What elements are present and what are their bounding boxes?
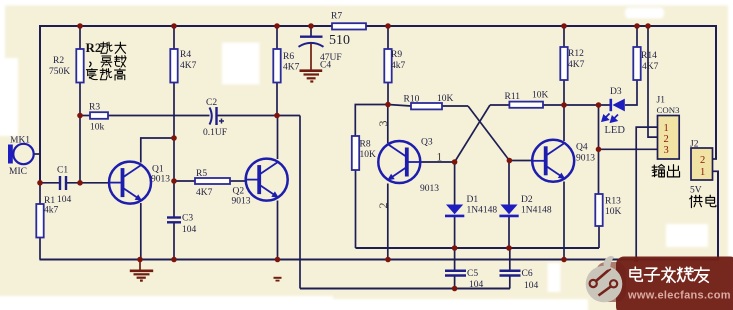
wire R13 bottom to node-A rail bbox=[598, 226, 600, 248]
svg-text:CON3: CON3 bbox=[657, 105, 681, 115]
text 供电 glyph 电 bbox=[706, 195, 716, 206]
wire Q3 collector vertical bbox=[387, 105, 389, 144]
wire Q1 emitter to ground bbox=[140, 203, 142, 260]
svg-text:R1: R1 bbox=[44, 196, 55, 206]
badge glyph 发 bbox=[662, 267, 675, 282]
node D3-R13 bbox=[596, 102, 602, 108]
wire VCC top rail left of R7 bbox=[40, 25, 332, 27]
node VCC-R14 bbox=[634, 23, 640, 29]
svg-text:4K7: 4K7 bbox=[642, 62, 659, 72]
wire R10 right bbox=[442, 105, 468, 107]
svg-text:R5: R5 bbox=[196, 169, 207, 179]
capacitor C3 bbox=[167, 218, 181, 223]
wire ground rail (bottom main) bbox=[40, 259, 720, 261]
svg-text:J1: J1 bbox=[657, 96, 666, 106]
node VCC-R12 bbox=[561, 23, 567, 29]
white patch bottom left strip bbox=[0, 296, 333, 310]
wire R6 top bbox=[276, 26, 278, 49]
svg-text:5V: 5V bbox=[690, 186, 702, 196]
connector J2 bbox=[691, 148, 713, 180]
resistor R4 bbox=[170, 49, 177, 83]
resistor R14 bbox=[633, 47, 640, 80]
microphone MK1 bbox=[8, 144, 34, 164]
wire Q2 collector up to R6/C2 node bbox=[277, 116, 279, 160]
svg-text:R3: R3 bbox=[89, 103, 100, 113]
svg-text:10K: 10K bbox=[360, 150, 377, 160]
wire Q3 emitter to ground rail bbox=[387, 184, 389, 260]
svg-text:9013: 9013 bbox=[232, 197, 251, 207]
ground remnant under Q2 emitter bbox=[274, 278, 282, 281]
svg-text:C5: C5 bbox=[467, 269, 478, 279]
transistor Q3 (mirrored) bbox=[378, 141, 420, 183]
wire R13 top node vertical bbox=[598, 105, 600, 194]
wire D3 anode to R14 bbox=[625, 80, 637, 105]
node mic-C1 bbox=[37, 180, 43, 186]
capacitor C1 bbox=[60, 176, 66, 190]
svg-text:104: 104 bbox=[182, 225, 197, 235]
annotation glyph 灵 (line2) bbox=[101, 56, 112, 67]
node VCC-R6 bbox=[274, 23, 280, 29]
svg-text:Q3: Q3 bbox=[421, 138, 433, 148]
resistor R11 bbox=[509, 102, 543, 108]
resistor R10 bbox=[411, 103, 442, 109]
text 输出 glyph 输 bbox=[652, 165, 664, 177]
badge glyph 子 bbox=[644, 268, 659, 281]
svg-text:MIC: MIC bbox=[9, 167, 27, 177]
wire Q2 collector node down to node-C rail bbox=[299, 116, 301, 289]
svg-text:9013: 9013 bbox=[420, 184, 439, 194]
resistor R7 bbox=[332, 23, 366, 29]
node D1-C5 bbox=[452, 245, 458, 251]
white patch above badge bbox=[666, 224, 708, 247]
annotation glyph 高 (line3) bbox=[115, 69, 126, 81]
svg-text:MK1: MK1 bbox=[10, 136, 30, 146]
wire R11 right to Q4 collector node bbox=[543, 104, 564, 106]
svg-text:D1: D1 bbox=[467, 195, 479, 205]
wire Q4 base bbox=[509, 160, 533, 162]
resistor R1 bbox=[36, 204, 43, 238]
svg-text:10k: 10k bbox=[90, 123, 105, 133]
svg-text:1N4148: 1N4148 bbox=[467, 206, 498, 216]
svg-text:1: 1 bbox=[437, 152, 443, 164]
wire Q2 emitter to ground rail bbox=[277, 201, 279, 260]
wire R12 top bbox=[563, 26, 565, 47]
wire node-A rail (R8/R13/D1/D2 rail) bbox=[356, 247, 600, 249]
svg-text:R2: R2 bbox=[86, 40, 102, 55]
annotation glyph 大 (line1) bbox=[115, 42, 126, 53]
wire J2 pin2 stub bbox=[713, 158, 718, 160]
resistor R5 bbox=[195, 178, 230, 184]
node VCC-R4 bbox=[171, 23, 177, 29]
white patch bottom mid strip bbox=[333, 299, 588, 310]
node R9-R8-R10 bbox=[385, 102, 391, 108]
wire C6 bottom to node-C rail bbox=[509, 275, 511, 289]
wire cross-couple diagonal Q3 base to R11 bbox=[455, 105, 490, 162]
wire R4 top bbox=[173, 26, 175, 49]
svg-text:750K: 750K bbox=[49, 67, 70, 77]
white patch right strip bbox=[728, 0, 733, 310]
node C1-Q1base bbox=[77, 180, 83, 186]
svg-text:R9: R9 bbox=[391, 50, 402, 60]
svg-text:C2: C2 bbox=[206, 98, 217, 108]
badge glyph 电 bbox=[630, 267, 642, 281]
resistor R6 bbox=[273, 49, 280, 83]
svg-text:D3: D3 bbox=[610, 87, 622, 97]
svg-text:10K: 10K bbox=[532, 91, 549, 101]
wire mic node to C1 bbox=[40, 182, 59, 184]
svg-text:R8: R8 bbox=[360, 140, 371, 150]
capacitor C4 (polarized, to ground) bbox=[299, 37, 324, 47]
text 供电 glyph 供 bbox=[690, 195, 703, 207]
node VCC-C4 bbox=[308, 23, 314, 29]
LED emission arrows bbox=[602, 114, 618, 123]
capacitor C6 bbox=[500, 271, 521, 276]
svg-text:R10: R10 bbox=[404, 95, 420, 105]
svg-text:4K7: 4K7 bbox=[180, 61, 197, 71]
wire C1 to Q1 base bbox=[67, 182, 110, 184]
resistor R9 bbox=[384, 49, 391, 83]
node VCC-R2 bbox=[77, 23, 83, 29]
svg-text:www.elecfans.com: www.elecfans.com bbox=[627, 290, 731, 302]
wire Q4 collector node to D3 cathode bbox=[564, 104, 611, 106]
wire D2 anode bbox=[508, 161, 510, 206]
svg-text:104: 104 bbox=[524, 281, 539, 291]
wire R5 right to Q2 base bbox=[230, 180, 246, 182]
wire R6 bottom bbox=[276, 83, 278, 116]
svg-text:4K7: 4K7 bbox=[283, 63, 300, 73]
wire R2 bottom to Q1 base node bbox=[79, 83, 81, 183]
svg-text:R7: R7 bbox=[331, 12, 342, 22]
svg-text:LED: LED bbox=[605, 125, 626, 136]
node R12-R11-Q4coll bbox=[561, 102, 567, 108]
svg-text:104: 104 bbox=[57, 195, 72, 205]
node Q1coll-R4 bbox=[171, 135, 177, 141]
wire cross-couple diagonal R10 to Q4 base bbox=[468, 106, 509, 161]
wire mic to left vertical bbox=[34, 153, 41, 155]
annotation glyph comma (line2) bbox=[90, 62, 91, 66]
annotation glyph 度 (line3) bbox=[86, 69, 97, 80]
svg-text:4k7: 4k7 bbox=[44, 206, 59, 216]
svg-text:Q2: Q2 bbox=[233, 187, 245, 197]
svg-text:0.1UF: 0.1UF bbox=[203, 128, 227, 138]
annotation glyph 越 (line3) bbox=[100, 69, 112, 80]
capacitor C2 (polarized) bbox=[210, 107, 225, 125]
svg-text:R12: R12 bbox=[568, 49, 584, 59]
svg-text:J2: J2 bbox=[690, 140, 699, 150]
svg-text:C3: C3 bbox=[182, 214, 193, 224]
svg-text:R2: R2 bbox=[53, 56, 64, 66]
wire Q4 emitter to ground rail bbox=[563, 182, 565, 260]
node gnd-J1pin1 bbox=[633, 257, 639, 263]
wire J1 pin1 to ground rail bbox=[636, 127, 657, 259]
node R5-R4 bbox=[171, 178, 177, 184]
node C2-R6 bbox=[274, 113, 280, 119]
wire VCC top rail right of R7 bbox=[366, 25, 717, 27]
node gnd-Q4e bbox=[561, 257, 567, 263]
svg-text:104: 104 bbox=[469, 280, 484, 290]
node D2-C6 bbox=[506, 245, 512, 251]
wire C5 bottom to node-C rail bbox=[454, 275, 456, 289]
transistor Q2 bbox=[246, 159, 288, 201]
svg-text:3: 3 bbox=[664, 145, 669, 156]
wire D2 cathode to node-A rail bbox=[508, 216, 510, 248]
wire D1 cathode to node-A rail bbox=[454, 216, 456, 248]
wire Q3 collector node to R10 bbox=[388, 105, 411, 107]
wire left border vertical bbox=[39, 25, 41, 184]
transistor Q1 bbox=[109, 162, 151, 204]
node gnd-Q2e bbox=[275, 257, 281, 263]
node VCC-J1pin2 bbox=[645, 23, 651, 29]
svg-text:Q1: Q1 bbox=[152, 165, 164, 175]
wire R11 left bbox=[490, 104, 509, 106]
wire right border lower vertical (J2 pin1 to ground) bbox=[717, 171, 719, 260]
svg-text:1N4148: 1N4148 bbox=[521, 206, 552, 216]
node R13-J1pin3 bbox=[596, 147, 602, 153]
wire R8 bottom to node-A rail bbox=[355, 170, 357, 248]
node gnd-C3 bbox=[171, 257, 177, 263]
svg-text:1: 1 bbox=[700, 167, 705, 178]
wire R4 bottom through Q1 collector node and R5 node to C3 bbox=[173, 83, 175, 218]
resistor R12 bbox=[560, 47, 567, 80]
wire D1 anode bbox=[454, 162, 456, 205]
diode D2 1N4148 bbox=[499, 205, 518, 216]
resistor R8 bbox=[352, 136, 359, 170]
capacitor C5 bbox=[445, 271, 466, 276]
svg-text:9013: 9013 bbox=[576, 154, 595, 164]
transistor Q4 bbox=[532, 140, 574, 182]
svg-text:10K: 10K bbox=[605, 207, 622, 217]
wire R2 top bbox=[79, 26, 81, 49]
white patch center (between R6 and C2) bbox=[222, 43, 260, 85]
wire R5 left bbox=[174, 180, 195, 182]
wire C5 top bbox=[454, 248, 456, 270]
wire R9 top bbox=[387, 26, 389, 49]
resistor R13 bbox=[595, 194, 602, 226]
svg-text:C1: C1 bbox=[57, 166, 68, 176]
wire R3/C2 feedback horizontal left bbox=[80, 115, 90, 117]
node Q4base-D2 bbox=[507, 158, 513, 164]
diode D1 1N4148 bbox=[445, 205, 464, 216]
svg-text:2: 2 bbox=[376, 203, 390, 209]
svg-text:3: 3 bbox=[376, 121, 390, 127]
badge glyph 烧 bbox=[677, 267, 693, 281]
svg-text:C6: C6 bbox=[522, 269, 533, 279]
wire J1 pin2 to VCC rail bbox=[648, 26, 658, 137]
svg-text:Q4: Q4 bbox=[576, 143, 588, 153]
node VCC-R9 bbox=[385, 23, 391, 29]
annotation glyph 敏 (line2) bbox=[115, 56, 127, 68]
svg-text:R4: R4 bbox=[180, 50, 191, 60]
svg-text:9013: 9013 bbox=[151, 175, 170, 185]
connector J1 CON3 bbox=[658, 116, 680, 160]
wire Q4 collector vertical bbox=[563, 105, 565, 141]
annotation glyph 越 (line1) bbox=[101, 42, 113, 53]
wire right border upper vertical (J2 pin2 to VCC) bbox=[715, 26, 717, 159]
svg-text:R11: R11 bbox=[505, 92, 521, 102]
watermark badge elecfans bbox=[586, 256, 733, 310]
white blob above VCC rail right bbox=[625, 8, 664, 19]
svg-text:R14: R14 bbox=[641, 51, 657, 61]
wire Q3 collector node to R8 bbox=[355, 105, 388, 137]
svg-text:4K7: 4K7 bbox=[196, 188, 213, 198]
wire Q1 collector vertical bbox=[141, 138, 174, 163]
node Q3base-D1 bbox=[452, 159, 458, 165]
resistor R3 bbox=[90, 112, 108, 119]
wire R3 to C2 bbox=[108, 115, 210, 117]
white patch right of C6 bbox=[548, 263, 561, 292]
wire node-C rail (C5/C6 bottom rail) bbox=[300, 288, 510, 290]
svg-text:R6: R6 bbox=[283, 52, 294, 62]
svg-text:2: 2 bbox=[700, 155, 705, 166]
svg-text:R13: R13 bbox=[605, 197, 621, 207]
wire C3 bottom to ground rail bbox=[173, 223, 175, 260]
ground symbol (under C4) bbox=[300, 44, 323, 82]
node gnd-Q1 bbox=[137, 257, 143, 263]
svg-text:4K7: 4K7 bbox=[568, 60, 585, 70]
node C5-railC bbox=[452, 286, 458, 292]
resistor R2 bbox=[76, 49, 83, 83]
white patch left mid bbox=[0, 58, 18, 136]
wire R14 top bbox=[636, 26, 638, 47]
wire R1 bottom to ground rail bbox=[39, 238, 41, 260]
ground symbol (main, under Q1 emitter) bbox=[130, 260, 153, 281]
svg-text:510: 510 bbox=[329, 33, 350, 48]
diode D3 LED bbox=[611, 99, 625, 112]
wire Q3 base to D1 node bbox=[420, 161, 455, 163]
wire J1 pin3 to R13 node bbox=[599, 148, 658, 150]
badge glyph 友 bbox=[694, 267, 709, 282]
wire R12 bottom to Q4 collector node bbox=[563, 80, 565, 105]
svg-text:C4: C4 bbox=[320, 61, 331, 71]
white patch left top strip bbox=[0, 0, 5, 70]
wire R9 bottom to Q3 collector node bbox=[387, 83, 389, 105]
svg-text:10K: 10K bbox=[437, 94, 454, 104]
svg-text:D2: D2 bbox=[521, 195, 533, 205]
wire C4 top bbox=[310, 26, 312, 36]
svg-text:4k7: 4k7 bbox=[391, 61, 406, 71]
wire J2 pin1 stub bbox=[713, 170, 720, 172]
wire mic node down to R1 bbox=[39, 183, 41, 204]
node R3-R2 bbox=[77, 113, 83, 119]
svg-text:1: 1 bbox=[664, 123, 669, 134]
svg-text:2: 2 bbox=[664, 134, 669, 145]
node gnd-Q3e bbox=[385, 257, 391, 263]
wire C6 top bbox=[509, 248, 511, 270]
wire C2 to Q2 collector node bbox=[217, 115, 300, 117]
white patch top strip bbox=[0, 0, 733, 6]
text 输出 glyph 出 bbox=[667, 165, 679, 177]
